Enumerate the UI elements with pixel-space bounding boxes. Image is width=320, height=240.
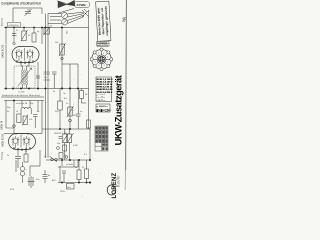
svg-text:5: 5 [98, 65, 99, 67]
svg-text:5k: 5k [53, 91, 55, 93]
svg-text:6: 6 [95, 62, 96, 64]
svg-text:2n: 2n [66, 103, 68, 105]
svg-text:Heizung: Heizung [2, 151, 4, 160]
svg-text:8: 8 [98, 53, 99, 55]
svg-text:Radio: Radio [117, 175, 122, 188]
svg-text:5n: 5n [80, 111, 82, 113]
svg-text:ca 240V: ca 240V [18, 91, 25, 93]
svg-text:5n: 5n [7, 155, 9, 157]
svg-text:EL41 5,4 230 8: EL41 5,4 230 8 [97, 91, 113, 94]
svg-text:3: 3 [107, 62, 108, 64]
svg-text:UKW EC92: UKW EC92 [1, 133, 5, 147]
svg-text:SYWB: SYWB [77, 3, 87, 7]
svg-text:5n: 5n [64, 93, 66, 95]
svg-text:EABC80 0,9 85: EABC80 0,9 85 [97, 88, 114, 91]
svg-text:0,3M: 0,3M [73, 145, 78, 147]
svg-text:2k: 2k [64, 155, 66, 157]
svg-text:an Buchse TA: an Buchse TA [16, 102, 28, 105]
svg-text:EF80 2,1 95 14: EF80 2,1 95 14 [97, 83, 113, 86]
svg-text:Bei Anschluß an die Buchsen TA: Bei Anschluß an die Buchsen TA des Empf. [2, 94, 41, 97]
svg-text:▮N▮≡C0≡: ▮N▮≡C0≡ [96, 108, 110, 112]
svg-text:5k: 5k [50, 26, 52, 28]
svg-text:– 2 ·T ·–: – 2 ·T ·– [97, 100, 106, 102]
svg-text:1k: 1k [25, 151, 27, 153]
svg-text:7: 7 [95, 57, 96, 59]
svg-text:Compliments of Eckhard Kull: Compliments of Eckhard Kull [1, 1, 41, 5]
svg-text:2k: 2k [82, 167, 84, 169]
svg-text:4: 4 [104, 65, 105, 67]
svg-text:1n: 1n [16, 30, 18, 32]
svg-text:1: 1 [103, 53, 104, 55]
svg-text:Antenne: Antenne [1, 17, 4, 26]
svg-text:UKW 87,5-100: UKW 87,5-100 [54, 133, 68, 135]
svg-text:UKW M: UKW M [0, 121, 4, 130]
svg-text:2k: 2k [28, 35, 30, 37]
svg-text:an Skala: an Skala [66, 164, 73, 166]
svg-text:UKW EC92: UKW EC92 [1, 44, 5, 58]
svg-text:6,3V: 6,3V [10, 189, 15, 191]
svg-text:2: 2 [107, 56, 108, 58]
svg-text:1M: 1M [85, 94, 88, 96]
svg-text:Netz: Netz [67, 186, 71, 189]
svg-text:4,7MΩ 22p: 4,7MΩ 22p [9, 25, 20, 27]
svg-text:220V~: 220V~ [60, 191, 67, 193]
svg-text:5n: 5n [37, 111, 39, 113]
svg-text:UKW-Zusatzgerät: UKW-Zusatzgerät [114, 75, 124, 145]
svg-text:5k: 5k [75, 167, 77, 169]
svg-text:10k: 10k [55, 42, 58, 44]
svg-text:10k: 10k [29, 119, 32, 121]
